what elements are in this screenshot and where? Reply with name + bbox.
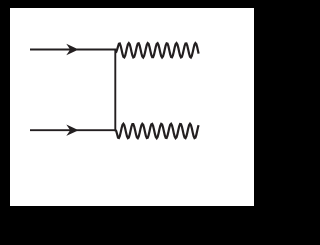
- fermion line 2 (incoming, bottom): [30, 129, 115, 131]
- fermion line 1 (incoming, top): [30, 49, 115, 51]
- arrowhead on fermion line 2: [66, 125, 78, 136]
- photon wavy line 1 (top): [115, 43, 198, 57]
- photon wavy line 2 (bottom): [115, 124, 198, 138]
- white canvas: [10, 8, 254, 206]
- fermion propagator (vertical): [114, 49, 116, 132]
- arrowhead on fermion line 1: [66, 44, 78, 55]
